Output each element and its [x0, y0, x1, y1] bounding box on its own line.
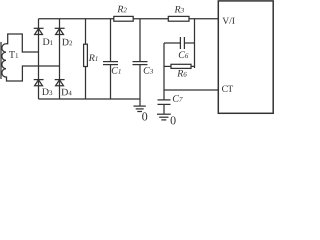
wire: T1 bottom lead to bridge AC2 node: [6, 66, 60, 81]
wire: CT row: [164, 89, 218, 91]
label C1: [112, 67, 121, 74]
ground (under C7, node 0): [157, 113, 171, 115]
label C3: [144, 67, 153, 74]
resistor R1 (vertical): [85, 19, 87, 45]
transformer T1 primary bar: [0, 42, 2, 79]
diode D4: [55, 79, 65, 81]
wire: RC filter left side (x=164) down to CT row: [163, 43, 165, 90]
ground (bridge common, node 0): [134, 105, 146, 107]
resistor R3 (top, series box 2): [168, 16, 189, 21]
label R1: [89, 54, 98, 61]
wire: bridge column 1 (x=38.5): [38, 19, 40, 99]
resistor R6 (horizontal box): [164, 65, 171, 67]
label R6: [177, 70, 187, 77]
label D4: [61, 89, 71, 96]
wire: bridge column 2 (x=59.5): [59, 19, 61, 99]
label R2: [117, 6, 127, 13]
label C7: [173, 95, 183, 102]
capacitor C3: [139, 19, 141, 62]
capacitor C1: [110, 19, 112, 62]
wire: top rail segments: [39, 18, 114, 20]
label D2: [62, 39, 72, 46]
label 0a: [142, 112, 147, 120]
transformer T1 secondary coil: [2, 44, 6, 77]
label D3: [42, 88, 52, 95]
wire: C3 bottom lead through bottom rail junction to ground 1: [139, 65, 141, 106]
wire: bottom rail: [39, 98, 141, 100]
label Ct_C: [222, 86, 227, 92]
diode D2: [55, 27, 65, 29]
wire: T1 top lead to bridge AC1 node: [6, 34, 39, 52]
capacitor C7: [163, 90, 165, 100]
label C6: [179, 51, 189, 58]
resistor R2 (top, series box 1): [114, 16, 133, 21]
label VI: [222, 18, 234, 24]
label T1: [9, 51, 18, 58]
diode D1: [34, 27, 44, 29]
label 0b: [171, 116, 176, 124]
label D1: [43, 38, 53, 45]
label R3: [174, 6, 183, 13]
diode D3: [34, 79, 44, 81]
capacitor C6 (horizontal): [164, 42, 180, 44]
wire: rail drop to RC filter (x=194.5): [194, 19, 196, 68]
label Ct_T: [228, 86, 233, 92]
V/I + CT converter box U1: [218, 1, 273, 113]
